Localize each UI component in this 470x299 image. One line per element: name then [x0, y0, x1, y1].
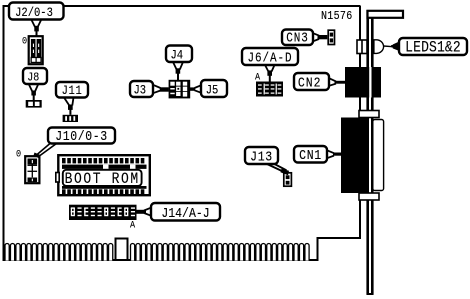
CN1 jackscrew bottom	[359, 193, 379, 200]
connector CN2 (black block across bracket)	[345, 67, 381, 98]
svg-text:J13: J13	[250, 149, 273, 165]
svg-text:J14/A-J: J14/A-J	[161, 205, 209, 221]
pointer from CN3 label	[313, 33, 327, 41]
pointer from CN1 label	[327, 150, 342, 158]
jumper block J14	[69, 205, 137, 220]
svg-text:N1576: N1576	[321, 11, 352, 24]
pointer from J13 label	[267, 164, 289, 175]
label CN3	[282, 30, 313, 47]
CN1 jackscrew top	[359, 111, 379, 118]
PCB board outline	[3, 5, 361, 261]
LED pointer tail	[384, 45, 391, 47]
svg-text:J6/A-D: J6/A-D	[248, 51, 293, 66]
svg-text:J4: J4	[171, 48, 184, 63]
label J14/A-J	[151, 203, 220, 222]
svg-text:J5: J5	[206, 83, 219, 98]
card edge connector fingers (right group)	[131, 244, 310, 261]
pointer from LEDS1&2 label	[391, 43, 399, 51]
jumper block J3/J4/J5	[169, 80, 191, 99]
svg-text:J8: J8	[27, 72, 39, 85]
svg-text:CN1: CN1	[299, 147, 322, 163]
svg-text:LEDS1&2: LEDS1&2	[405, 40, 461, 57]
pointer from J11 label	[64, 98, 74, 115]
svg-text:0: 0	[22, 35, 27, 47]
BOOT ROM socket/chip U?	[56, 155, 150, 195]
CN1 D-shell on bracket	[373, 120, 384, 191]
jumper J11	[63, 115, 78, 122]
svg-text:A: A	[255, 71, 260, 83]
label J13	[245, 147, 278, 165]
connector CN1 (black block)	[341, 118, 367, 194]
label J10/0-3	[48, 128, 115, 145]
pointer from CN2 label	[329, 78, 345, 86]
label CN1	[294, 146, 327, 164]
svg-text:A: A	[130, 219, 135, 231]
label J11	[56, 82, 88, 99]
pointer from J8 label	[29, 84, 39, 100]
label J2/0-3	[9, 3, 64, 21]
jumper J13 (2-pin)	[284, 173, 292, 186]
pointer from J3 label	[153, 85, 169, 93]
jumper J8	[26, 100, 42, 108]
svg-text:0: 0	[16, 148, 21, 160]
label J6/A-D	[242, 48, 298, 66]
pointer from J14/A-J label	[137, 208, 152, 216]
connector key tab	[116, 239, 128, 261]
LEDs 1 and 2 (D-shape)	[374, 40, 384, 54]
pointer from J10/0-3 label	[34, 144, 57, 159]
svg-text:J3: J3	[134, 83, 147, 98]
connector CN3 (2-pin header)	[328, 30, 334, 44]
label J5	[201, 80, 227, 98]
pointer from J4 label	[173, 62, 183, 80]
label J4	[166, 46, 192, 64]
LED holder on board edge	[357, 40, 367, 54]
pointer from J5 label	[190, 85, 201, 92]
svg-text:J2/0-3: J2/0-3	[15, 5, 53, 20]
bracket top tab	[368, 11, 404, 18]
jumper block J2	[29, 36, 43, 64]
label J3	[130, 81, 153, 98]
svg-text:CN2: CN2	[298, 75, 322, 91]
BOOT ROM label	[63, 170, 142, 186]
card edge connector fingers (left group)	[5, 244, 113, 261]
metal mounting bracket	[366, 10, 369, 295]
jumper block J6	[256, 82, 283, 97]
label LEDS1&2	[399, 38, 467, 57]
pointer from J2/0-3 label	[31, 20, 41, 37]
label J8	[23, 68, 47, 85]
svg-text:J11: J11	[62, 83, 83, 98]
chip notch	[56, 173, 59, 183]
bracket slot gap in CN2	[369, 67, 371, 98]
svg-text:BOOT ROM: BOOT ROM	[65, 171, 140, 188]
pointer from J6/A-D label	[265, 65, 275, 82]
label CN2	[294, 73, 329, 91]
svg-text:J10/0-3: J10/0-3	[55, 128, 107, 144]
svg-text:CN3: CN3	[286, 31, 308, 46]
jumper block J10	[25, 156, 39, 183]
